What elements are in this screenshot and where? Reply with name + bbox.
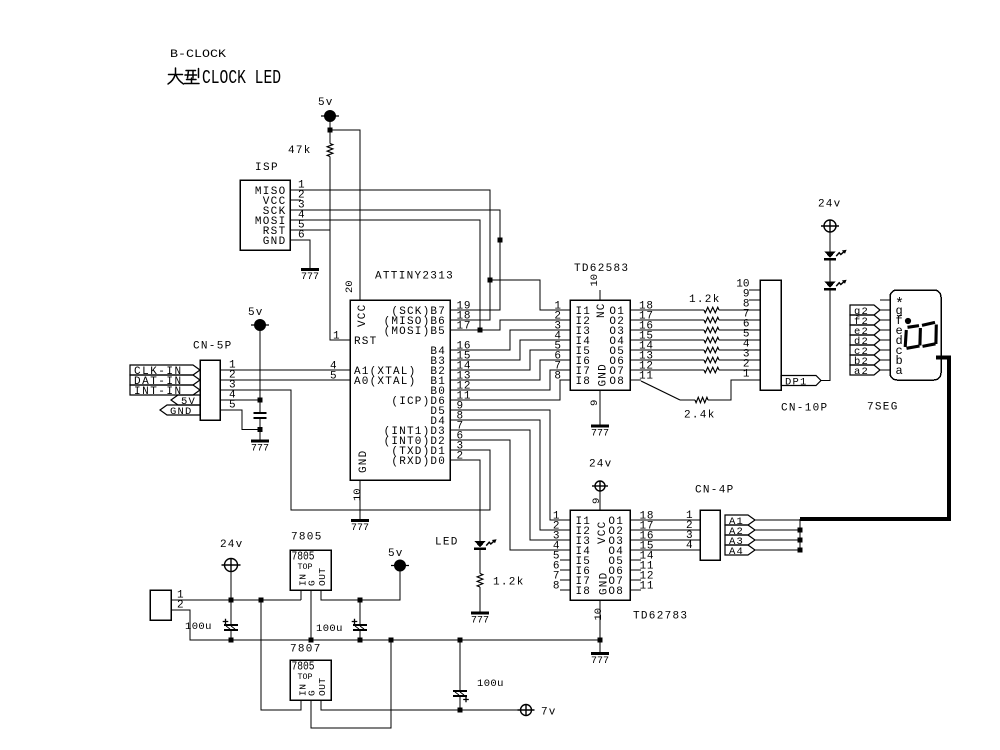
7SEG decimal point dot	[905, 318, 910, 323]
svg-text:20: 20	[344, 280, 356, 293]
wire to ground	[259, 430, 261, 442]
title text CLOCK LED	[202, 67, 281, 89]
label ATTINY2313	[375, 271, 454, 283]
wire between LEDs	[829, 260, 831, 282]
junction MOSI joins B5 row at 480,330	[477, 327, 482, 332]
TD62783 GND pin 10 wire to rail	[599, 600, 601, 640]
ground (ISP)	[301, 268, 319, 271]
wire ATTINY B5 row to TD62583 I2 pin2	[450, 320, 570, 330]
vertical tie of A nets	[799, 519, 801, 550]
TD62783 left pin numbers 1-8	[553, 511, 560, 593]
power symbol 7v	[518, 705, 535, 716]
wire D1 to CN-5P INT-IN (pin3)	[220, 390, 490, 510]
svg-text:RST: RST	[354, 336, 377, 348]
svg-text:CN-5P: CN-5P	[193, 341, 233, 353]
wire 2.4k to CN-10P pin 1	[708, 380, 760, 400]
title kanji 大型 (large-size)	[168, 68, 199, 84]
IC U1 ATTINY2313 box	[350, 300, 450, 480]
wire D6 to TD62583 I8	[450, 380, 570, 400]
label LED	[435, 537, 459, 549]
CN-10P stub pin 9	[749, 299, 760, 301]
svg-text:GND: GND	[358, 450, 370, 473]
wire 1.2k to ground	[479, 587, 481, 613]
svg-text:VCC: VCC	[357, 304, 369, 327]
svg-text:ATTINY2313: ATTINY2313	[375, 271, 454, 283]
wire B4 to TD62583 I3	[450, 330, 570, 350]
wire 5v down to CN-5P pin4	[259, 331, 261, 401]
wire A3 flag to junction	[755, 539, 800, 541]
TD62783 pin names O1-O8	[608, 516, 624, 598]
wire DP1 to LED chain	[821, 290, 831, 381]
wire B2 to TD62583 I5	[450, 350, 570, 370]
junction 7805 GND	[308, 637, 313, 642]
wires TD62783 O1-O4 to CN-4P pins 1-4	[630, 519, 700, 521]
svg-text:CN-10P: CN-10P	[781, 403, 828, 415]
resistor 1.2k row O3 to CN-10P pin 6	[630, 329, 704, 331]
wire A1 flag to thick net	[755, 519, 800, 521]
svg-text:B-CLOCK: B-CLOCK	[170, 49, 226, 61]
regulator U5 7807 box	[290, 660, 331, 700]
svg-text:G: G	[307, 580, 318, 586]
ATTINY2313 pin 10 number (rotated)	[352, 488, 364, 501]
svg-text:I8: I8	[576, 376, 592, 388]
svg-text:CLOCK LED: CLOCK LED	[202, 67, 281, 89]
7SEG pin letters	[895, 296, 904, 378]
label TD62783	[633, 611, 688, 623]
TD62583 pin names I1-I8	[576, 306, 592, 388]
ISP pin numbers 1-6	[298, 180, 305, 242]
title text B-CLOCK	[170, 49, 226, 61]
svg-text:5: 5	[330, 371, 337, 383]
svg-text:777: 777	[251, 444, 269, 455]
TD62783 unconnected output stubs O5-O8	[630, 559, 641, 561]
wire ISP MISO (pin1) to ATTINY B6 pin18	[290, 190, 490, 320]
net flag 5V	[171, 395, 200, 405]
wire 24v symbol down	[230, 571, 232, 601]
wire ISP MOSI (pin4) to ATTINY B5 pin17	[290, 220, 480, 330]
wire 7807 OUT to 7v	[321, 700, 520, 710]
wire 24v to 7807 IN	[261, 600, 301, 710]
net flag CLK-IN	[130, 365, 200, 375]
label ISP	[255, 162, 279, 174]
wire D3 to TD62783 I3	[450, 430, 570, 540]
ground (ATTINY GND)	[351, 519, 369, 522]
junction MISO branch at 490,280	[487, 277, 492, 282]
7SEG pin * stub	[880, 299, 890, 301]
svg-text:2.4k: 2.4k	[684, 410, 716, 422]
svg-text:7805: 7805	[291, 532, 323, 544]
wire A2 flag to junction	[755, 529, 800, 531]
svg-text:8: 8	[554, 371, 561, 383]
svg-text:GND: GND	[599, 572, 611, 595]
resistor 1.2k row O6 to CN-10P pin 3	[630, 359, 704, 361]
wire LED to 1.2k	[479, 549, 481, 574]
net flags A1-A4	[725, 515, 755, 525]
svg-text:4: 4	[686, 540, 693, 552]
svg-text:TD62583: TD62583	[574, 263, 629, 275]
svg-text:LED: LED	[435, 537, 459, 549]
wire B1 to TD62583 I6	[450, 360, 570, 380]
svg-text:VCC: VCC	[597, 521, 609, 544]
TD62583 right pin numbers 18-11	[639, 301, 654, 383]
svg-text:9: 9	[589, 400, 601, 406]
net flags g2-a2	[850, 305, 880, 315]
7807 symbol texts	[292, 660, 329, 697]
svg-text:24v: 24v	[818, 199, 841, 211]
net flag DP1	[781, 376, 821, 386]
CN-10P pin numbers	[736, 279, 750, 381]
wire J1 pin2 to GND rail	[171, 610, 600, 640]
LED D3 (status)	[474, 541, 486, 547]
junction C3 to rail	[357, 637, 362, 642]
TD62783 unconnected input stubs I5-I8	[560, 559, 570, 561]
svg-text:100u: 100u	[316, 623, 343, 635]
wire ISP SCK (pin3) to ATTINY B7 pin19	[290, 210, 500, 310]
net flag INT-IN	[130, 385, 200, 395]
svg-text:777: 777	[351, 523, 369, 534]
svg-text:O8: O8	[609, 376, 625, 388]
ATTINY2313 rotated VCC label	[357, 304, 369, 327]
power symbol 24v (TD62783)	[592, 481, 608, 491]
svg-text:1.2k: 1.2k	[493, 577, 525, 589]
ground (TD62583)	[591, 425, 609, 428]
junction rail to 7807 gnd return	[388, 637, 393, 642]
svg-text:24v: 24v	[589, 459, 612, 471]
junction CN-5P pin4	[257, 397, 262, 402]
connector CN-10P box	[760, 280, 781, 390]
svg-text:17: 17	[457, 321, 472, 333]
wire CLK-IN to ATTINY A1 pin4	[220, 369, 350, 371]
svg-text:GND: GND	[598, 363, 610, 386]
svg-text:9: 9	[591, 498, 603, 504]
wire 47k to RST node and ATTINY RST pin 1	[330, 157, 350, 341]
wire J1 pin1 24v row to 7805 IN	[171, 599, 301, 601]
ATTINY2313 right-side pin numbers	[457, 301, 472, 463]
svg-text:777: 777	[591, 429, 609, 440]
ATTINY2313 right-side pin names	[384, 306, 446, 468]
svg-text:47k: 47k	[288, 145, 312, 157]
svg-text:I8: I8	[576, 586, 592, 598]
svg-text:GND: GND	[263, 236, 287, 248]
net flag GND	[160, 405, 200, 415]
TD62583 GND pin 9 wire to ground	[599, 390, 601, 426]
7805 symbol texts	[292, 550, 329, 587]
connector J1 2-pin box	[150, 590, 171, 620]
TD62783 VCC pin 9 wire to 24v	[599, 492, 601, 511]
svg-text:DP1: DP1	[785, 376, 808, 388]
label TD62583	[574, 263, 629, 275]
svg-text:7v: 7v	[541, 707, 557, 719]
power symbol 24v (input)	[222, 559, 241, 572]
wire rail junction to ground	[599, 640, 601, 654]
svg-text:a: a	[896, 364, 903, 378]
svg-text:5v: 5v	[318, 97, 334, 109]
wire D0 down to status LED	[450, 460, 480, 541]
resistor R1 47k (5v pullup)	[329, 130, 331, 144]
ISP pin2 VCC stub	[290, 199, 301, 201]
resistor R10 2.4k	[695, 397, 708, 402]
regulator U4 7805 box	[290, 550, 331, 590]
svg-text:G: G	[307, 690, 318, 696]
svg-text:CN-4P: CN-4P	[695, 485, 735, 497]
svg-text:O8: O8	[608, 586, 624, 598]
svg-text:ISP: ISP	[255, 162, 279, 174]
svg-text:777: 777	[471, 616, 489, 627]
CN-10P stub pin 10	[749, 289, 760, 291]
TD62583 pin names O1-O8	[609, 306, 625, 388]
junction GND rail / TD62783 ground	[597, 637, 602, 642]
7805 IN pin stub	[300, 590, 302, 600]
ATTINY2313 left-side pin names RST A1 A0	[354, 336, 416, 388]
svg-text:OUT: OUT	[317, 677, 328, 696]
wire MISO branch to TD62583 I1 pin1	[490, 280, 570, 310]
wire A4 flag to junction	[755, 549, 800, 551]
TD62783 rotated GND label	[599, 572, 611, 595]
svg-text:10: 10	[593, 608, 605, 621]
LED D2 (24v chain lower)	[824, 282, 836, 288]
wire O8 via 2.4k to CN-10P pin1	[630, 379, 641, 381]
wire DAT-IN to ATTINY A0 pin5	[220, 379, 350, 381]
wire CN-5P pin4 to 5v net	[220, 399, 260, 401]
junction A2	[797, 527, 802, 532]
connector ISP box	[240, 180, 290, 250]
svg-text:OUT: OUT	[317, 567, 328, 586]
TD62783 rotated VCC label	[597, 521, 609, 544]
power symbol 5v (7805 out)	[391, 560, 409, 571]
resistor 1.2k row O1 to CN-10P pin 8	[630, 309, 704, 311]
svg-text:1: 1	[333, 331, 340, 343]
TD62783 right pin numbers	[640, 511, 655, 593]
resistor R9 1.2k	[477, 574, 483, 588]
wire 7807 GND loop	[311, 640, 391, 728]
label 1.2k (resistor array)	[689, 294, 721, 306]
svg-text:TOP: TOP	[298, 672, 313, 682]
CN-5P pin numbers 1-5	[229, 360, 236, 412]
junction cap/gnd	[257, 427, 262, 432]
svg-text:a2: a2	[854, 366, 869, 378]
svg-text:(MOSI)B5: (MOSI)B5	[384, 326, 446, 338]
IC U3 TD62783 box	[570, 510, 630, 600]
power symbol 5v (top)	[321, 111, 339, 122]
TD62583 VCC pin 10 stub	[599, 290, 601, 300]
ATTINY2313 GND pin 10 wire to ground	[359, 480, 361, 521]
svg-text:777: 777	[301, 272, 319, 283]
wire D5 to TD62783 I1	[450, 410, 570, 520]
resistor 1.2k row O7 to CN-10P pin 2	[630, 369, 704, 371]
svg-text:NC: NC	[596, 302, 608, 318]
capacitor C2 100u	[230, 600, 232, 625]
wire D2 to TD62783 I4	[450, 440, 570, 550]
ground (CN-5P)	[251, 440, 269, 443]
ground (status LED)	[471, 612, 489, 615]
LED D1 (24v chain upper)	[824, 252, 836, 258]
wire B3 to TD62583 I4	[450, 340, 570, 360]
junction 24v/cap	[228, 597, 233, 602]
svg-text:TD62783: TD62783	[633, 611, 688, 623]
svg-text:(RXD)D0: (RXD)D0	[391, 456, 446, 468]
junction C4 to 7v row	[457, 707, 462, 712]
resistor 1.2k row O2 to CN-10P pin 7	[630, 319, 704, 321]
wire ISP GND (pin6) down	[290, 240, 310, 270]
thick wire 7SEG common to CN-4P nets	[800, 358, 949, 520]
wire 5v to junction	[329, 122, 331, 131]
display 7SEG box	[890, 290, 941, 380]
junction A3	[797, 537, 802, 542]
ATTINY2313 pin 20 number (rotated)	[344, 280, 356, 293]
resistor 1.2k row O5 to CN-10P pin 4	[630, 349, 704, 351]
svg-text:GND: GND	[170, 406, 193, 418]
CN-4P pin numbers	[686, 510, 693, 552]
svg-text:10: 10	[589, 274, 601, 287]
TD62583 rotated NC label	[596, 302, 608, 318]
junction on SCK wire at 500,240	[497, 237, 502, 242]
capacitor C1 (5v bypass)	[259, 400, 261, 413]
svg-text:8: 8	[553, 581, 560, 593]
svg-text:A0(XTAL): A0(XTAL)	[354, 376, 416, 388]
svg-text:A4: A4	[729, 546, 744, 558]
TD62583 rotated GND label	[598, 363, 610, 386]
svg-text:100u: 100u	[185, 621, 212, 633]
svg-text:1: 1	[743, 369, 750, 381]
capacitor C4 100u	[459, 640, 461, 691]
capacitor C3 100u	[359, 600, 361, 625]
svg-text:100u: 100u	[477, 678, 504, 690]
junction C2 to rail	[228, 637, 233, 642]
IC U2 TD62583 box	[570, 300, 630, 390]
resistor 1.2k row O4 to CN-10P pin 5	[630, 339, 704, 341]
wire D4 to TD62783 I2	[450, 420, 570, 530]
ATTINY2313 rotated GND label	[358, 450, 370, 473]
wire CN-5P pin5 GND	[220, 410, 260, 430]
7SEG digit segments	[905, 322, 936, 348]
wire junction to ATTINY VCC pin 20	[330, 130, 360, 300]
wire 24v symbol to LED D1	[829, 232, 831, 252]
J1 pin numbers	[177, 590, 184, 612]
svg-text:5v: 5v	[248, 307, 264, 319]
junction rail to C4	[457, 637, 462, 642]
svg-text:1.2k: 1.2k	[689, 294, 721, 306]
net flag DAT-IN	[130, 375, 200, 385]
svg-text:7SEG: 7SEG	[867, 402, 899, 414]
junction 5v cap	[357, 597, 362, 602]
power symbol 24v (LED chain)	[821, 220, 839, 232]
connector CN-4P box	[700, 510, 720, 560]
TD62583 left pin numbers 1-8	[554, 301, 561, 383]
svg-text:TOP: TOP	[298, 562, 313, 572]
svg-text:24v: 24v	[220, 539, 243, 551]
svg-text:5v: 5v	[388, 548, 404, 560]
junction at 330,130	[327, 127, 332, 132]
7805 GND pin to rail	[310, 590, 312, 640]
ground (power rail)	[591, 652, 609, 655]
svg-text:11: 11	[640, 581, 655, 593]
power symbol 5v (CN-5P)	[251, 320, 269, 331]
wire 7805 OUT to 5v	[321, 571, 400, 600]
svg-text:777: 777	[591, 656, 609, 667]
wire B0 to TD62583 I7	[450, 370, 570, 390]
svg-text:10: 10	[352, 488, 364, 501]
junction A4	[797, 547, 802, 552]
svg-text:7807: 7807	[290, 644, 322, 656]
ISP pin names	[255, 186, 287, 248]
connector CN-5P box	[200, 360, 220, 420]
svg-text:INT-IN: INT-IN	[134, 386, 183, 398]
ATTINY2313 left pin numbers 1 4 5	[330, 331, 340, 383]
TD62783 pin names I1-I8	[576, 516, 592, 598]
wire ISP RST (pin5) to RST net	[290, 229, 330, 231]
junction 24v branch to 7807	[258, 597, 263, 602]
